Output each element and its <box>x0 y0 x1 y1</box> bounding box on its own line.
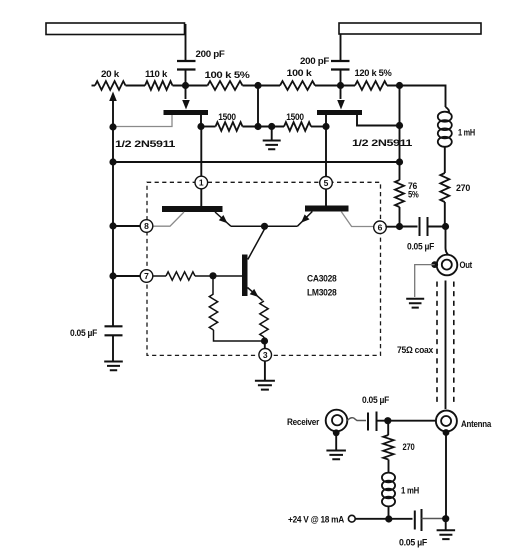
node V <box>384 417 391 424</box>
wire C6 to node X <box>422 518 446 520</box>
svg-text:0.05 µF: 0.05 µF <box>362 395 389 406</box>
svg-text:Out: Out <box>460 260 473 271</box>
Out shell ground lead <box>415 265 435 297</box>
Q5 emitter <box>248 288 263 301</box>
transistor Q4 bar <box>305 206 349 212</box>
node B <box>254 82 261 89</box>
node R (Q5 base node) <box>209 272 216 279</box>
label 75 ohm coax <box>397 345 434 356</box>
node S (pin 3 node) <box>261 337 268 344</box>
Q2 gate arrow <box>337 86 345 110</box>
node C (gate 2 junction) <box>337 82 344 89</box>
node O (Out shell) <box>431 261 438 268</box>
wire node N to C3 <box>400 226 418 228</box>
wire node S to pin 3 <box>264 341 266 348</box>
wire C2 to node C <box>340 70 342 86</box>
svg-text:1500: 1500 <box>218 112 236 123</box>
coax center conductor <box>445 281 447 410</box>
wire R13 to L4 <box>388 460 390 474</box>
resistor R8 270 <box>440 173 470 202</box>
Q2 source lead <box>325 115 327 127</box>
node W <box>385 515 392 522</box>
pin 6 <box>374 221 387 234</box>
wire C1 to node A <box>185 70 187 86</box>
wire R8 to node M <box>444 202 446 227</box>
svg-text:120 k 5%: 120 k 5% <box>355 68 393 79</box>
svg-text:200 pF: 200 pF <box>196 49 226 60</box>
node F <box>254 123 261 130</box>
svg-text:1: 1 <box>199 178 204 188</box>
svg-text:Receiver: Receiver <box>287 417 320 428</box>
node H (Q2 source) <box>322 123 329 130</box>
node L (rail-supply) <box>109 158 116 165</box>
wire rod-R to C2 <box>340 34 342 61</box>
wire R5 to right rail <box>387 86 446 108</box>
resistor R6 1500 (left) <box>201 112 243 131</box>
connector J1 Out <box>437 255 473 276</box>
resistor R4 100 k <box>280 68 315 90</box>
svg-text:0.05 µF: 0.05 µF <box>70 328 97 339</box>
Q3 emitter <box>215 212 231 226</box>
node J <box>396 158 403 165</box>
ground (Out) <box>406 299 424 308</box>
wire rail to pin 8 <box>113 225 140 227</box>
wire R7 to Q2 source <box>311 126 326 128</box>
wire node H down to pin 5 <box>325 127 327 177</box>
transistor Q1 1/2 2N5911 gate bar <box>115 110 208 150</box>
Q2 drain lead <box>357 115 400 126</box>
capacitor C3 0.05 uF <box>407 217 434 253</box>
wire L4 to node W <box>388 506 390 520</box>
svg-text:CA3028: CA3028 <box>307 274 337 285</box>
svg-text:20 k: 20 k <box>101 69 120 80</box>
ground (Receiver) <box>326 451 346 460</box>
svg-text:1/2 2N5911: 1/2 2N5911 <box>352 138 413 149</box>
Q5 collector <box>248 226 265 259</box>
wire R2 to node A <box>173 85 208 87</box>
ground (center) <box>263 127 281 150</box>
wire pin 6 to node N <box>386 226 399 228</box>
wire R3 to node B <box>243 85 281 87</box>
node X <box>442 515 449 522</box>
Q1 source lead <box>113 115 172 127</box>
wire C3 to node M <box>428 226 446 228</box>
capacitor C1 200 pF <box>177 49 225 70</box>
tank line element L2 (right rod) <box>339 23 481 34</box>
resistor R5 120 k 5% <box>355 68 393 90</box>
node N <box>396 223 403 230</box>
wire R6 to center ground node <box>243 126 285 128</box>
svg-text:200 pF: 200 pF <box>300 56 330 67</box>
transistor Q3 bar <box>162 206 223 212</box>
svg-text:7: 7 <box>144 271 149 281</box>
ground (bottom) <box>437 519 456 539</box>
resistor R12 (emitter) <box>260 301 268 341</box>
Q4 emitter <box>297 212 312 227</box>
svg-text:1 mH: 1 mH <box>458 128 475 139</box>
svg-text:3: 3 <box>263 350 268 360</box>
wire R4 to node C <box>315 85 355 87</box>
transistor Q5 bar <box>242 255 248 297</box>
transistor Q2 1/2 2N5911 gate bar <box>317 110 413 149</box>
node Y (Antenna shell) <box>443 429 450 436</box>
node A (gate 1 junction) <box>182 82 189 89</box>
svg-text:5%: 5% <box>408 190 419 201</box>
capacitor C6 0.05 uF <box>399 509 427 549</box>
ground (left rail) <box>104 362 123 371</box>
wire L3 to R8 <box>444 146 446 173</box>
resistor R10 (pin 7 base) <box>153 272 213 280</box>
Q1 gate arrow <box>182 86 190 110</box>
Q4 collector <box>325 189 327 205</box>
coax shield dashed left <box>436 282 438 406</box>
node P (emitter junction) <box>261 223 268 230</box>
wire node E down to pin 1 <box>200 127 202 177</box>
wire R9 to node N <box>399 207 401 227</box>
node U (Receiver shell) <box>333 429 340 436</box>
node Q (rail pin7) <box>109 272 116 279</box>
svg-text:1/2 2N5911: 1/2 2N5911 <box>115 139 176 150</box>
capacitor C5 0.05 uF <box>362 395 389 431</box>
node E (Q1 drain) <box>197 123 204 130</box>
coax shield dashed right <box>453 282 455 406</box>
node K (left rail top) <box>109 123 116 130</box>
pin 8 <box>140 220 153 233</box>
svg-text:100 k 5%: 100 k 5% <box>205 70 251 81</box>
capacitor C4 0.05 uF <box>70 326 123 339</box>
capacitor C2 200 pF <box>300 56 350 70</box>
wire antenna drop <box>445 433 447 519</box>
Q5 base lead <box>213 275 242 277</box>
inductor L4 1 mH <box>382 473 419 507</box>
svg-text:LM3028: LM3028 <box>307 288 337 299</box>
svg-text:270: 270 <box>456 183 470 194</box>
svg-text:6: 6 <box>378 223 383 233</box>
svg-text:1500: 1500 <box>286 112 304 123</box>
wire C5 to node V <box>377 420 437 422</box>
node G <box>268 123 275 130</box>
wire C4 to ground <box>112 335 114 361</box>
connector J2 Receiver <box>287 410 347 432</box>
wire node M to Out connector <box>446 227 449 255</box>
svg-text:8: 8 <box>144 221 149 231</box>
Receiver shell ground lead <box>335 433 337 450</box>
resistor R7 1500 (right) <box>284 112 311 131</box>
resistor R9 76 5% <box>395 162 419 207</box>
Q3 base lead <box>153 212 184 226</box>
wire +24V to node W <box>355 518 412 520</box>
wire Receiver to C5 <box>347 418 366 421</box>
wire Q4 emitter to node P <box>265 225 298 227</box>
supply line (drain bus) <box>113 161 400 163</box>
node D <box>396 82 403 89</box>
svg-text:+24 V @ 18 mA: +24 V @ 18 mA <box>288 515 344 526</box>
wire node D to node J <box>399 86 401 163</box>
pin 5 <box>320 177 333 190</box>
rheostat R1 20 k <box>92 69 126 90</box>
ground (pin 3) <box>255 381 275 390</box>
pin 7 <box>140 270 153 283</box>
Q1 drain lead <box>200 115 202 127</box>
wire rail to pin 7 <box>113 275 140 277</box>
svg-text:100 k: 100 k <box>287 68 313 79</box>
Q4 base lead <box>341 212 374 227</box>
Q3 collector <box>200 189 202 206</box>
node I (Q2 drain) <box>396 122 403 129</box>
IC U1 CA3028 outline <box>147 182 381 355</box>
svg-text:75Ω coax: 75Ω coax <box>397 345 434 356</box>
terminal +24 V <box>288 515 355 526</box>
svg-text:Antenna: Antenna <box>461 419 492 430</box>
svg-text:0.05 µF: 0.05 µF <box>399 538 427 549</box>
resistor R3 100 k 5% <box>205 70 251 90</box>
resistor R2 110 k <box>145 69 173 90</box>
svg-text:5: 5 <box>324 178 329 188</box>
resistor R13 270 <box>383 421 414 460</box>
resistor R11 (base-emitter) <box>209 276 264 341</box>
node T (rail pin8) <box>109 222 116 229</box>
tank line element L1 (left rod) <box>46 23 185 35</box>
svg-text:270: 270 <box>403 442 415 453</box>
pin 3 <box>259 349 272 362</box>
left rail <box>112 127 114 326</box>
connector J3 Antenna <box>436 411 492 432</box>
node M <box>442 223 449 230</box>
label U1 type <box>307 274 337 299</box>
wire rod-L to C1 <box>185 24 187 61</box>
svg-text:1 mH: 1 mH <box>401 486 419 497</box>
svg-text:110 k: 110 k <box>145 69 168 80</box>
R1 wiper arrow <box>109 92 117 128</box>
svg-text:0.05 µF: 0.05 µF <box>407 242 434 253</box>
wire Q3 emitter to node P <box>231 225 265 227</box>
wire node B to node F <box>257 86 259 127</box>
wire R1 to R2 <box>126 85 146 87</box>
inductor L3 1 mH <box>438 107 476 147</box>
pin 1 <box>195 176 208 189</box>
wire pin 3 to ground <box>264 361 266 380</box>
